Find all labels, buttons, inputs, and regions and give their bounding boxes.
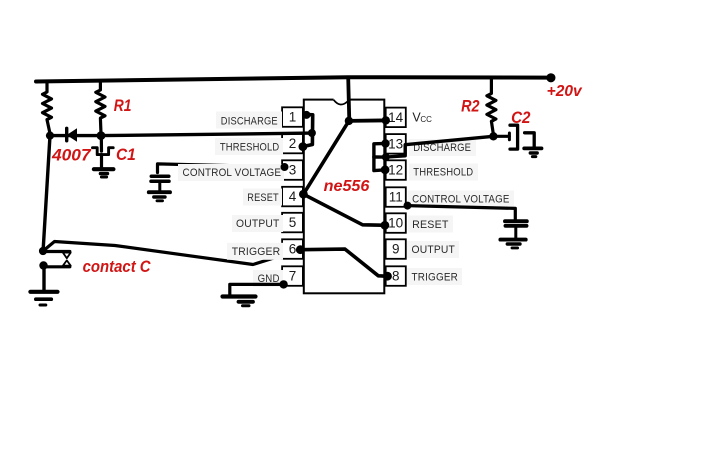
label TRIGGER pin8 [407, 268, 462, 285]
pin box 7 [282, 266, 303, 286]
svg-text:contact C: contact C [83, 258, 152, 276]
svg-text:OUTPUT: OUTPUT [412, 244, 456, 256]
svg-text:R2: R2 [461, 98, 479, 116]
ground (pin7) [223, 297, 256, 306]
label CONTROL VOLTAGE pin3 [178, 164, 284, 181]
notch [334, 98, 348, 101]
ground (C2) [524, 148, 541, 156]
wire left drop to contact [43, 136, 50, 249]
svg-text:7: 7 [289, 269, 297, 284]
wire discharge to R2 junction [386, 136, 494, 157]
capacitor C2 [493, 125, 534, 149]
pin box 14 [386, 108, 406, 128]
wire pin6 to pin8 [300, 249, 387, 276]
contact C switch [39, 247, 71, 290]
label OUTPUT pin5 [232, 215, 283, 232]
node pin1 [303, 111, 311, 119]
label RESET pin10 [408, 216, 453, 233]
svg-text:R1: R1 [114, 97, 132, 115]
pin box 11 [386, 187, 406, 207]
svg-text:CONTROL VOLTAGE: CONTROL VOLTAGE [412, 194, 510, 206]
node pin3 [281, 163, 289, 171]
node contact bottom [39, 261, 47, 269]
wire j14 to pin4 [303, 121, 349, 194]
node pin2 [299, 142, 308, 151]
label CONTROL VOLTAGE pin11 [408, 191, 514, 208]
svg-text:RESET: RESET [412, 219, 449, 231]
svg-text:3: 3 [289, 163, 297, 178]
label OUTPUT pin9 [407, 241, 459, 258]
svg-text:14: 14 [388, 110, 404, 125]
node R2 junction [489, 132, 497, 140]
pin box 6 [282, 239, 303, 258]
label TRIGGER pin6 [227, 243, 283, 260]
svg-text:1: 1 [289, 110, 297, 125]
pin box 2 [282, 134, 303, 154]
svg-text:CC: CC [420, 115, 432, 124]
svg-text:8: 8 [392, 269, 400, 284]
svg-text:OUTPUT: OUTPUT [236, 218, 280, 230]
svg-text:13: 13 [388, 136, 403, 151]
wire threshold from R1 junction [101, 133, 312, 136]
svg-text:TRIGGER: TRIGGER [232, 246, 281, 258]
svg-text:CONTROL VOLTAGE: CONTROL VOLTAGE [183, 167, 282, 179]
svg-text:2: 2 [289, 136, 297, 151]
svg-text:C1: C1 [116, 146, 136, 164]
arrow down [63, 253, 71, 259]
label RESET pin4 [243, 189, 282, 206]
label THRESHOLD pin12 [409, 164, 478, 181]
node j14 [345, 117, 353, 125]
pin box 13 [386, 134, 406, 154]
wire pin13-pin12 bracket [374, 144, 386, 171]
ground (below C1) [94, 169, 114, 177]
wire contact to ground [42, 266, 45, 291]
pin box 9 [386, 239, 406, 258]
node R1 junction [97, 131, 106, 140]
label DISCHARGE pin1 [216, 112, 282, 129]
node pin12 [381, 165, 390, 174]
svg-text:ne556: ne556 [324, 178, 370, 195]
ground (below CV cap left) [149, 192, 170, 201]
node pin13 [381, 139, 389, 147]
svg-text:4007: 4007 [51, 147, 92, 165]
svg-text:THRESHOLD: THRESHOLD [413, 167, 473, 179]
svg-text:+20v: +20v [547, 83, 583, 100]
node +20v junction [546, 73, 555, 82]
wire diode row [50, 134, 101, 137]
label DISCHARGE pin13 [409, 139, 476, 156]
node loop junction [308, 129, 316, 137]
svg-text:4: 4 [289, 189, 297, 204]
op-amp-ic U1 ne556 body [304, 100, 385, 294]
wire bottom prong [44, 265, 70, 268]
wire contact arm to pin 6 trigger [43, 242, 300, 265]
pin box 3 [282, 160, 303, 180]
capacitor control-voltage right + wire from pin 11 [408, 206, 527, 238]
node pin8 [383, 272, 392, 281]
svg-text:10: 10 [388, 216, 403, 231]
diode 4007 [67, 128, 77, 141]
resistor R2 [487, 78, 496, 135]
node contact top [39, 247, 47, 255]
svg-text:12: 12 [388, 163, 403, 178]
pin box 5 [282, 213, 303, 233]
capacitor control-voltage left + wire to pin 3 [151, 164, 285, 191]
pin box 8 [386, 266, 406, 286]
wire top prong [43, 250, 70, 253]
label THRESHOLD pin2 [215, 138, 283, 155]
resistor R1 [96, 81, 105, 134]
node pin11 [404, 202, 412, 210]
arrow up [63, 260, 71, 265]
ground (CV cap right) [500, 240, 525, 248]
svg-text:9: 9 [392, 242, 400, 257]
node pin7 [279, 280, 287, 288]
svg-text:DISCHARGE: DISCHARGE [221, 116, 278, 128]
node pin10 [381, 221, 390, 230]
pin box 10 [386, 213, 406, 233]
node pin4 [299, 190, 308, 199]
resistor R0 (unlabeled left) [43, 81, 52, 133]
svg-text:11: 11 [389, 190, 403, 205]
node pin6 [296, 245, 305, 254]
pin box 1 [282, 107, 303, 127]
label GND pin7 [253, 270, 283, 287]
svg-text:6: 6 [289, 242, 297, 257]
pin box 12 [386, 160, 406, 180]
wire +20v top rail [36, 77, 551, 81]
node left junction [46, 132, 54, 140]
wire pin1-pin2 loop [303, 115, 313, 147]
ground (below contact) [30, 292, 57, 305]
svg-text:RESET: RESET [247, 192, 279, 204]
node mid 13-12 [382, 153, 390, 161]
capacitor C1 [93, 136, 114, 168]
node pin14 [382, 116, 390, 124]
svg-text:5: 5 [289, 215, 297, 230]
wire j14 to pin14 [349, 119, 386, 123]
wire pin4 to pin10 [303, 194, 385, 225]
svg-text:C2: C2 [511, 109, 530, 127]
svg-text:THRESHOLD: THRESHOLD [220, 141, 280, 153]
pin box 4 [282, 187, 303, 207]
svg-text:TRIGGER: TRIGGER [412, 271, 459, 283]
wire Vcc drop from rail [348, 78, 349, 121]
wire pin7 gnd [230, 284, 284, 295]
